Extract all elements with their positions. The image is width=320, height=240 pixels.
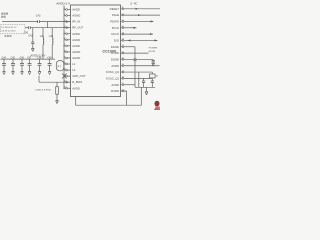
- svg-text:POWER: POWER: [149, 47, 158, 49]
- wire AVDD vertical bus: [63, 5, 65, 88]
- capacitor C51: [142, 79, 145, 88]
- pin 17 XOSC_Q2 (right): [106, 70, 153, 74]
- svg-text:R4 3Ω: R4 3Ω: [149, 51, 156, 53]
- svg-text:C42: C42: [28, 35, 33, 38]
- svg-text:L41: L41: [40, 35, 45, 38]
- pin 1 AVDD (left): [63, 8, 79, 12]
- svg-text:C49: C49: [47, 58, 52, 60]
- pin 30 PCLK (right): [112, 26, 137, 30]
- wire DIO left arrowhead: [128, 39, 131, 41]
- capacitor C50 with ground: [152, 60, 155, 67]
- node antenna label (CJK): [1, 13, 8, 18]
- pin 12 CHP_OUT (left): [64, 74, 86, 78]
- wire RF_IN to antenna: [2, 21, 70, 23]
- svg-text:RF_IN: RF_IN: [72, 20, 80, 24]
- svg-text:R_BIAS: R_BIAS: [72, 80, 82, 84]
- capacitor C49 decoupling: [47, 58, 52, 72]
- svg-text:2l - RC: 2l - RC: [130, 4, 137, 6]
- pin 15 AVDD (right): [111, 83, 135, 87]
- pin 14 AVDD (left): [63, 86, 79, 90]
- node AVDD-3V label: [56, 2, 71, 6]
- svg-text:PCLK: PCLK: [112, 26, 119, 30]
- IC name CC1000: [102, 49, 116, 53]
- svg-text:AGND: AGND: [72, 50, 80, 54]
- node matching-network note (CJK): [5, 35, 12, 37]
- pin 2l RESET (right): [110, 7, 160, 11]
- svg-text:C45: C45: [11, 58, 16, 60]
- pin 8 AGND (left): [64, 50, 80, 54]
- pin 25 DGND (right): [111, 57, 153, 61]
- inductor XL1 VCO: [56, 61, 64, 71]
- no-connect X on CHP_OUT: [62, 74, 67, 79]
- svg-text:DVDD: DVDD: [111, 89, 119, 93]
- svg-text:PDATA: PDATA: [110, 20, 119, 24]
- svg-text:AVDD: AVDD: [72, 86, 80, 90]
- wire junction RF_IN/RF_OUT drop: [47, 22, 49, 28]
- pin 3 RF_IN (left): [64, 20, 80, 24]
- node matching values text: [1, 27, 17, 32]
- node POWER net labels: [149, 47, 158, 53]
- wire DVDD drop to loop: [121, 91, 127, 105]
- svg-text:PALE: PALE: [112, 13, 119, 17]
- pin 4 RF_OUT (left): [64, 26, 84, 30]
- pin 7 AVDD (left): [63, 44, 79, 48]
- pin 29 PDATA (right): [110, 20, 153, 24]
- svg-text:AVDD-3 V: AVDD-3 V: [56, 2, 71, 6]
- pin 13 R_BIAS (left): [64, 80, 82, 84]
- node value note text: [35, 89, 52, 91]
- capacitor C43 series RF_IN: [36, 14, 41, 23]
- node AVDD-3.3 label: [30, 53, 45, 57]
- svg-text:AVDD: AVDD: [111, 64, 119, 68]
- svg-text:XOSC_Q2: XOSC_Q2: [106, 70, 120, 74]
- capacitor C45 decoupling: [11, 58, 16, 72]
- inductor L41: [40, 28, 45, 59]
- ground below C42: [31, 49, 34, 52]
- capacitor C52: [151, 79, 154, 88]
- svg-text:DGND: DGND: [111, 57, 119, 61]
- svg-text:L2: L2: [72, 68, 76, 72]
- pin 27 PALE (right): [112, 13, 160, 17]
- svg-text:AGND: AGND: [72, 38, 80, 42]
- svg-text:XOSC_Q1: XOSC_Q1: [106, 76, 120, 80]
- svg-text:AVDD: AVDD: [72, 44, 80, 48]
- pin 10 L1 (left): [64, 62, 76, 66]
- wire AVDD supply rail: [1, 58, 56, 60]
- wire XOSC_Q2 vertical: [138, 72, 140, 87]
- capacitor C44 decoupling: [2, 58, 7, 72]
- svg-text:C46: C46: [20, 58, 25, 60]
- svg-text:C44: C44: [2, 58, 7, 60]
- svg-text:AGND: AGND: [72, 56, 80, 60]
- antenna matching network box (dashed): [1, 25, 25, 34]
- svg-text:C43: C43: [36, 14, 41, 17]
- capacitor C46 decoupling: [20, 58, 25, 72]
- ground below C44: [3, 72, 6, 75]
- resistor R431 bias: [56, 82, 59, 100]
- svg-text:AGND: AGND: [72, 14, 80, 18]
- wire ground rail right: [135, 86, 155, 88]
- ground below R431: [56, 101, 59, 104]
- crystal X1: [150, 72, 160, 78]
- svg-text:CHP_OUT: CHP_OUT: [72, 74, 86, 78]
- node RC net label: [130, 4, 137, 6]
- svg-text:L1: L1: [72, 62, 76, 66]
- svg-text:CC1000: CC1000: [102, 49, 116, 53]
- wire R_BIAS: [39, 76, 71, 83]
- pin 23 DCLK (right): [112, 32, 153, 36]
- svg-text:DIO: DIO: [114, 38, 120, 42]
- ground below C49: [48, 72, 51, 75]
- svg-text:DGND: DGND: [111, 45, 119, 49]
- svg-text:DCLK: DCLK: [112, 32, 120, 36]
- svg-text:C9 5.6 1.2 nH 4: C9 5.6 1.2 nH 4: [1, 30, 16, 32]
- pin 9 AGND (left): [64, 56, 80, 60]
- svg-text:RESET: RESET: [110, 7, 120, 11]
- IC U1 CC1000 body: [71, 5, 121, 97]
- svg-text:AVDD: AVDD: [72, 32, 80, 36]
- ground below C48: [38, 72, 41, 75]
- pin 26 AVDD (right): [111, 64, 159, 68]
- pin 11 L2 (left): [64, 68, 76, 72]
- svg-text:C47: C47: [27, 58, 32, 60]
- pin 5 AVDD (left): [63, 32, 79, 36]
- inductor L42: [49, 28, 54, 59]
- wire RF_OUT to matching network: [25, 27, 71, 29]
- capacitor C48 decoupling: [37, 58, 42, 72]
- pin 14 DVDD (right): [111, 89, 126, 93]
- ground below C45: [12, 72, 15, 75]
- svg-text:C2430 4.9 R431: C2430 4.9 R431: [35, 89, 52, 91]
- svg-text:AVDD: AVDD: [72, 8, 80, 12]
- pin 6 AGND (left): [64, 38, 80, 42]
- watermark logo: [154, 101, 160, 111]
- wire DGND vertical with series capacitor: [134, 47, 137, 88]
- pin 16 XOSC_Q1 (right): [106, 76, 153, 80]
- pin 24 DIO (right): [114, 38, 157, 42]
- pin 31 DVDD (right): [111, 51, 148, 55]
- ground below C46: [21, 72, 24, 75]
- svg-text:AVDD: AVDD: [111, 83, 119, 87]
- svg-text:RF_OUT: RF_OUT: [72, 26, 83, 30]
- pin 2 AGND (left): [64, 14, 80, 18]
- capacitor C41 series RF_OUT: [24, 26, 31, 34]
- svg-text:L42: L42: [49, 35, 54, 38]
- ground right: [145, 87, 148, 95]
- wire under-chip return loop: [76, 87, 142, 105]
- svg-text:5.1 43.9 4.95 1.2: 5.1 43.9 4.95 1.2: [1, 27, 17, 29]
- ground below C47: [28, 72, 31, 75]
- capacitor C47 decoupling: [27, 58, 32, 72]
- background: [0, 0, 160, 110]
- pin 22 DGND (right): [111, 45, 135, 49]
- capacitor C42 shunt: [28, 28, 34, 49]
- svg-text:C48: C48: [37, 58, 42, 60]
